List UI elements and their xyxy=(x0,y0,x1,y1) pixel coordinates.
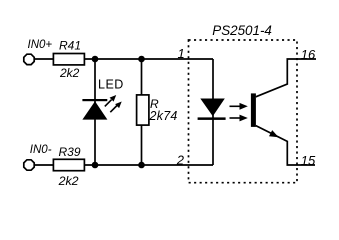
phototransistor collector wire to pin 16 xyxy=(256,59,316,97)
junction top-right xyxy=(138,56,145,63)
optocoupler U1 PS2501-4 outline xyxy=(189,23,298,183)
terminal IN0- xyxy=(24,144,52,170)
svg-text:2k74: 2k74 xyxy=(149,109,178,123)
svg-text:16: 16 xyxy=(301,47,316,62)
svg-text:LED: LED xyxy=(98,77,124,91)
wire vertical pin1 to pin2 inside opto xyxy=(212,59,214,165)
wire bottom rail IN0- to pin 2 xyxy=(29,164,213,166)
svg-text:R41: R41 xyxy=(59,38,81,52)
svg-text:IN0+: IN0+ xyxy=(28,39,53,51)
LED light emission arrows xyxy=(105,95,122,112)
terminal IN0+ xyxy=(24,39,53,64)
resistor R 2k74 xyxy=(137,95,178,125)
phototransistor emitter arrowhead xyxy=(269,130,279,137)
wire LED branch vertical xyxy=(94,59,96,165)
phototransistor emitter wire to pin 15 xyxy=(256,126,315,165)
resistor R39 xyxy=(53,145,84,188)
svg-text:R39: R39 xyxy=(59,145,81,159)
svg-text:1: 1 xyxy=(178,46,185,61)
wire R 2k74 branch vertical xyxy=(141,59,143,165)
svg-text:PS2501-4: PS2501-4 xyxy=(212,23,272,38)
wire top rail IN0+ to pin 1 xyxy=(29,58,213,60)
resistor R41 xyxy=(53,38,84,79)
svg-text:2: 2 xyxy=(176,152,185,167)
optocoupler light coupling arrows xyxy=(230,103,248,122)
svg-text:2k2: 2k2 xyxy=(59,66,80,80)
junction top-left xyxy=(92,56,99,63)
phototransistor Q1 base bar xyxy=(251,93,256,127)
junction bottom-right xyxy=(138,162,145,169)
svg-text:IN0-: IN0- xyxy=(30,144,52,156)
optocoupler internal LED xyxy=(198,99,226,120)
LED indicator diode xyxy=(82,77,123,119)
junction bottom-left xyxy=(92,162,99,169)
svg-text:2k2: 2k2 xyxy=(58,174,79,188)
